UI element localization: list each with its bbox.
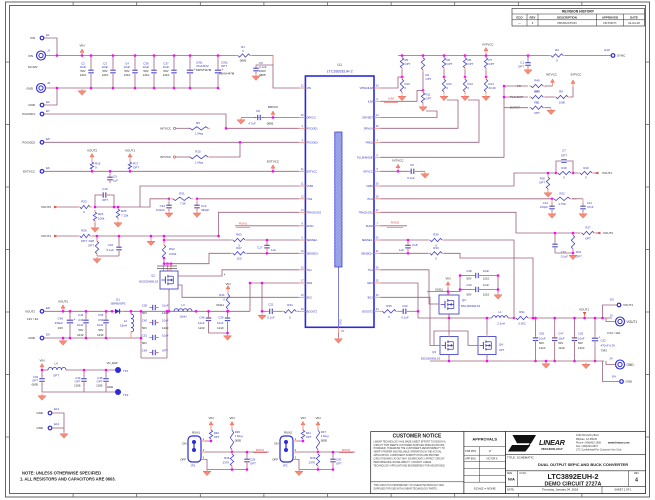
- svg-text:18uH: 18uH: [120, 324, 127, 328]
- svg-text:SENSE1+: SENSE1+: [361, 251, 373, 255]
- terminal E1: [30, 33, 50, 40]
- svg-text:10uF: 10uF: [97, 323, 104, 327]
- svg-text:50V: 50V: [142, 326, 147, 330]
- svg-text:1uF: 1uF: [399, 248, 404, 252]
- wire R34 to BOOST2: [297, 310, 300, 312]
- connector J4: [609, 357, 634, 370]
- svg-text:PLLIN/MODE: PLLIN/MODE: [357, 155, 373, 159]
- wire C34 down: [83, 384, 85, 392]
- svg-text:10uF: 10uF: [483, 283, 490, 287]
- resistor R39: [309, 452, 320, 468]
- capacitor C53 C52 pair: [97, 310, 109, 339]
- capacitor C13: [194, 199, 209, 212]
- wire BG1 to gates: [381, 297, 441, 345]
- svg-text:VOUT2: VOUT2: [41, 205, 51, 209]
- ground C6: [417, 171, 429, 178]
- svg-text:VOUT1: VOUT1: [125, 149, 135, 153]
- svg-text:C20: C20: [466, 283, 472, 287]
- resistor R27: [580, 226, 596, 241]
- svg-text:1210: 1210: [124, 73, 131, 77]
- svg-text:10uF: 10uF: [539, 336, 546, 340]
- node SW-Q2: [448, 317, 451, 320]
- svg-text:GND: GND: [627, 363, 635, 367]
- svg-text:0.1uF: 0.1uF: [267, 316, 275, 320]
- svg-text:50V: 50V: [466, 293, 471, 297]
- terminal E6: [23, 166, 50, 174]
- resistor R26: [78, 229, 92, 243]
- svg-text:VOUT2: VOUT2: [58, 300, 68, 304]
- capacitor C22: [398, 304, 409, 320]
- resistor R24: [93, 210, 105, 223]
- svg-text:50V: 50V: [142, 341, 147, 345]
- svg-text:+: +: [74, 317, 76, 321]
- wire R63 to RS2: [164, 240, 231, 244]
- svg-text:1210: 1210: [77, 333, 84, 337]
- svg-text:R44: R44: [219, 293, 225, 297]
- svg-text:50V: 50V: [98, 328, 103, 332]
- net label RUN2: [339, 448, 353, 453]
- net flag VOUT1 feedback: [41, 234, 78, 238]
- svg-text:0.004: 0.004: [169, 252, 177, 256]
- svg-text:1210: 1210: [162, 326, 169, 330]
- svg-text:BSC026N06LS3: BSC026N06LS3: [139, 279, 158, 283]
- wire GND rail: [46, 87, 219, 89]
- svg-text:OPT: OPT: [426, 97, 432, 101]
- ground C11: [579, 212, 587, 218]
- svg-text:E12: E12: [54, 422, 60, 426]
- ground R10: [398, 95, 406, 101]
- svg-text:3.3V / 10A: 3.3V / 10A: [607, 331, 620, 335]
- svg-text:237K: 237K: [223, 461, 230, 465]
- svg-text:OPT: OPT: [518, 65, 524, 69]
- wire SW1 vertical: [381, 283, 419, 318]
- svg-text:Q3: Q3: [432, 350, 436, 354]
- svg-text:C43: C43: [78, 318, 84, 322]
- svg-text:ON: ON: [274, 442, 278, 446]
- resistor R25: [116, 206, 128, 220]
- wire VPRG to R5: [381, 77, 403, 88]
- svg-text:R25: R25: [121, 209, 127, 213]
- capacitor C10 feedback: [94, 187, 116, 208]
- wire Q3-Q4 gate tie: [434, 331, 478, 346]
- wire output gnd rail: [430, 360, 604, 362]
- svg-text:C49: C49: [466, 269, 472, 273]
- wire SW2 vertical to rail: [249, 283, 251, 311]
- svg-text:1210: 1210: [162, 311, 169, 315]
- svg-text:63HVH47M: 63HVH47M: [219, 72, 235, 76]
- terminal E3: [610, 298, 633, 308]
- svg-text:VOUT2: VOUT2: [25, 310, 35, 314]
- svg-text:INTVCC: INTVCC: [363, 169, 373, 173]
- svg-text:C18: C18: [412, 243, 418, 247]
- ground C14: [548, 212, 556, 218]
- wire E2 to GND rail: [44, 88, 57, 105]
- svg-text:470uF 6.3V: 470uF 6.3V: [601, 344, 616, 348]
- svg-text:E4: E4: [612, 375, 616, 379]
- power flag VIN R36: [229, 416, 234, 428]
- node PGOOD2-R15: [239, 141, 242, 144]
- wire R47 to RS2 bottom: [171, 253, 231, 263]
- svg-text:OPT: OPT: [447, 62, 453, 66]
- svg-text:INTVCC: INTVCC: [160, 127, 171, 131]
- ground C15 R31: [569, 254, 577, 260]
- node R41 bottom: [302, 440, 305, 443]
- resistor R17: [128, 160, 139, 173]
- svg-text:BSC100N06LS3: BSC100N06LS3: [461, 304, 481, 308]
- svg-text:12V / 3A: 12V / 3A: [27, 317, 38, 321]
- node boost-sw: [417, 310, 420, 313]
- resistor R2: [549, 48, 565, 63]
- svg-text:18uH: 18uH: [179, 315, 186, 319]
- ground R24: [91, 226, 99, 232]
- svg-text:OPT: OPT: [561, 154, 567, 158]
- svg-text:TP1: TP1: [123, 369, 129, 373]
- resistor R20: [539, 172, 550, 191]
- wire Q2 drain to caps: [448, 291, 460, 293]
- wire JP1 pin2 RUN1: [205, 451, 269, 453]
- svg-text:C45: C45: [58, 317, 64, 321]
- resistor R15 pull-up: [188, 150, 210, 165]
- net flag VOUT1 rail: [579, 308, 589, 320]
- resistor R9 pull-up: [188, 121, 210, 136]
- capacitor C12: [156, 199, 172, 212]
- svg-text:DUAL OUTPUT SEPIC AND BUCK CON: DUAL OUTPUT SEPIC AND BUCK CONVERTER: [538, 462, 628, 467]
- svg-text:1210: 1210: [97, 333, 104, 337]
- wire E1 to VIN rail: [44, 38, 57, 56]
- svg-text:PGOOD1: PGOOD1: [22, 112, 35, 116]
- svg-text:L4: L4: [54, 362, 58, 366]
- node C21 gnd: [261, 310, 264, 313]
- svg-text:10uF: 10uF: [162, 304, 169, 308]
- svg-text:R33: R33: [433, 246, 439, 250]
- wire C35 down: [105, 384, 107, 392]
- inductor L1: [492, 310, 508, 325]
- svg-text:0.002: 0.002: [518, 321, 526, 325]
- wire TRACKSS1: [381, 212, 581, 233]
- terminal E12: [36, 422, 59, 430]
- svg-text:PGOOD2: PGOOD2: [22, 141, 35, 145]
- svg-text:SENSE2-: SENSE2-: [307, 238, 318, 242]
- svg-text:SENSE2+: SENSE2+: [307, 251, 319, 255]
- jumper JP1: [180, 436, 205, 468]
- svg-text:Milpitas, CA 95035: Milpitas, CA 95035: [576, 438, 597, 441]
- svg-text:1210: 1210: [578, 346, 585, 350]
- svg-text:C52: C52: [98, 318, 104, 322]
- wire VIN rail: [46, 55, 237, 57]
- svg-text:APPROVALS: APPROVALS: [472, 436, 497, 441]
- power flag INTVCC PLS: [570, 73, 581, 98]
- capacitor C14: [540, 199, 555, 212]
- svg-text:VOUT1: VOUT1: [627, 320, 638, 324]
- svg-text:SBR8U60P5: SBR8U60P5: [111, 302, 126, 306]
- svg-text:DRVSET: DRVSET: [362, 116, 373, 120]
- wire DRVSET elbow: [381, 111, 438, 118]
- resistor R33: [428, 246, 444, 261]
- resistor RS2 sense: [162, 235, 176, 260]
- node Q4 gnd: [486, 360, 489, 363]
- svg-text:237K: 237K: [309, 461, 316, 465]
- svg-text:C54: C54: [142, 349, 148, 353]
- svg-text:THIS CIRCUIT IS PROPRIETARY TO: THIS CIRCUIT IS PROPRIETARY TO LINEAR TE…: [374, 484, 445, 487]
- wire JP2 pin3: [297, 460, 299, 470]
- title block with Linear Technology logo: [506, 432, 646, 494]
- svg-text:RUN2: RUN2: [342, 448, 350, 452]
- svg-text:E2: E2: [46, 100, 50, 104]
- net label ILIM: [381, 90, 424, 102]
- svg-text:R51: R51: [534, 100, 540, 104]
- wire JP1 pin3: [205, 460, 207, 470]
- power flag INTVCC R9: [160, 127, 190, 131]
- svg-text:E5: E5: [46, 137, 50, 141]
- svg-text:ITH2: ITH2: [307, 197, 313, 201]
- ground E11 E12: [60, 432, 68, 438]
- svg-text:10uF: 10uF: [217, 321, 224, 325]
- capacitor C50: [533, 317, 546, 363]
- svg-text:IC NO.: IC NO.: [520, 473, 527, 475]
- svg-text:LTC3892EUH-2: LTC3892EUH-2: [548, 472, 599, 481]
- svg-text:R8: R8: [559, 90, 563, 94]
- svg-text:1uF: 1uF: [113, 179, 118, 183]
- svg-text:1uF: 1uF: [271, 248, 276, 252]
- svg-text:VOUT2: VOUT2: [87, 149, 97, 153]
- resistor R44: [216, 282, 230, 313]
- svg-text:01-04-18: 01-04-18: [628, 21, 640, 25]
- terminal E7: [22, 109, 50, 116]
- svg-text:REV: REV: [634, 473, 639, 475]
- svg-text:RUN1: RUN1: [192, 431, 200, 435]
- node E3 rail: [601, 317, 604, 320]
- capacitor C2: [80, 54, 94, 89]
- svg-text:RUN1: RUN1: [307, 224, 315, 228]
- svg-text:TITLE: SCHEMATIC: TITLE: SCHEMATIC: [507, 456, 535, 460]
- capacitor C33: [32, 369, 45, 387]
- ground R25: [114, 221, 122, 227]
- svg-text:R50: R50: [534, 90, 540, 94]
- svg-text:OPT: OPT: [88, 244, 94, 248]
- svg-text:VIN: VIN: [79, 44, 84, 48]
- wire VFB2: [95, 186, 299, 207]
- net label FC: [503, 84, 528, 88]
- svg-text:VERIFY PROPER AND RELIABLE OPE: VERIFY PROPER AND RELIABLE OPERATION IN …: [374, 451, 443, 454]
- svg-text:ILIM: ILIM: [368, 99, 373, 103]
- wire Q3 source down: [448, 355, 450, 362]
- svg-text:Fax: (408)434-0507: Fax: (408)434-0507: [576, 445, 599, 448]
- svg-text:GND: GND: [36, 411, 43, 415]
- svg-text:VIN: VIN: [39, 359, 44, 363]
- wire R22 right: [572, 198, 576, 200]
- ground C5: [252, 74, 260, 80]
- capacitor C32 bulk: [592, 317, 616, 363]
- svg-text:R49: R49: [534, 79, 540, 83]
- capacitor C37: [163, 54, 177, 89]
- wire ITH1: [381, 198, 553, 200]
- svg-text:PERFORMANCE OR RELIABILITY. C: PERFORMANCE OR RELIABILITY. CONTACT LINE…: [374, 461, 432, 464]
- svg-text:C8: C8: [256, 109, 260, 113]
- capacitor C9: [107, 170, 118, 183]
- terminal E8: [25, 306, 50, 321]
- svg-text:4.7uF: 4.7uF: [248, 122, 256, 126]
- node R37 RUN2: [317, 451, 320, 454]
- svg-text:1210: 1210: [539, 346, 546, 350]
- capacitor C16: [97, 235, 122, 256]
- svg-text:1210: 1210: [198, 326, 205, 330]
- node Q1 pin4: [224, 274, 226, 277]
- net label RUN1: [253, 448, 267, 453]
- svg-text:OPT: OPT: [81, 239, 87, 243]
- net label RUN1 pin: [235, 221, 299, 227]
- svg-text:OPT: OPT: [133, 166, 139, 170]
- wire R33 to RS1 right: [444, 253, 533, 318]
- net label RUN2 pin: [381, 220, 408, 227]
- power flag VIN Q2: [445, 277, 450, 289]
- testpoint TP2: [107, 385, 129, 397]
- svg-text:FREQ: FREQ: [366, 140, 373, 144]
- svg-text:TG1: TG1: [368, 268, 374, 272]
- connector J1: [28, 49, 51, 70]
- resistor R28: [88, 235, 99, 256]
- resistor R23: [78, 200, 92, 214]
- ground R20 arrow: [544, 191, 552, 197]
- svg-text:1210: 1210: [558, 346, 565, 350]
- wire INTVCC pin row: [381, 170, 409, 172]
- svg-text:DATE:: DATE:: [507, 488, 515, 492]
- power flag VIN R41: [300, 416, 305, 428]
- svg-text:C26: C26: [578, 331, 584, 335]
- ground R13: [461, 95, 469, 101]
- ground JP2: [295, 470, 303, 476]
- wire JP2 ground rail: [299, 468, 334, 471]
- wire C21 to R34: [276, 310, 282, 312]
- wire DRVUV elbow: [381, 100, 459, 128]
- svg-text:SW1: SW1: [367, 281, 373, 285]
- svg-text:TRACK/SS2: TRACK/SS2: [307, 210, 322, 214]
- ground U1 pin33: [334, 333, 342, 343]
- node Q4 drain: [486, 317, 489, 320]
- node R36 RUN1: [231, 451, 234, 454]
- capacitor C7 feedback: [555, 149, 575, 175]
- svg-text:1 Meg: 1 Meg: [235, 434, 243, 438]
- svg-text:16V: 16V: [58, 326, 63, 330]
- svg-text:APPLICATION. COMPONENT SUBSTI: APPLICATION. COMPONENT SUBSTITUTION AND …: [374, 454, 440, 457]
- svg-text:10uF: 10uF: [162, 334, 169, 338]
- svg-text:PGOOD1: PGOOD1: [307, 126, 319, 130]
- resistor R47: [231, 246, 247, 261]
- power flag VOUT2 R16: [87, 149, 97, 161]
- svg-text:47nF: 47nF: [587, 205, 594, 209]
- svg-text:10uF: 10uF: [483, 269, 490, 273]
- svg-text:GND: GND: [339, 319, 342, 325]
- wire VIN to Q2 drain: [447, 288, 449, 295]
- svg-text:0.1uF: 0.1uF: [401, 316, 409, 320]
- capacitor C47: [552, 317, 565, 363]
- svg-text:LINEAR: LINEAR: [539, 438, 566, 447]
- resistor R22: [551, 191, 572, 206]
- svg-text:L1: L1: [498, 310, 502, 314]
- node R5 mid: [401, 76, 404, 79]
- svg-text:1630 McCarthy Blvd.: 1630 McCarthy Blvd.: [576, 434, 600, 437]
- svg-text:RUN2: RUN2: [284, 431, 292, 435]
- capacitor C35: [96, 369, 109, 388]
- svg-text:—: —: [518, 21, 521, 25]
- wire cap gnd rail: [42, 384, 118, 392]
- svg-text:10uF: 10uF: [558, 336, 565, 340]
- terminal E10 SYNC: [604, 48, 626, 58]
- svg-text:OPT: OPT: [539, 181, 545, 185]
- capacitor C15: [552, 232, 568, 259]
- svg-text:0805: 0805: [321, 439, 328, 443]
- svg-text:JP2: JP2: [283, 464, 288, 468]
- ground C21: [258, 314, 266, 320]
- resistor R34: [282, 303, 298, 320]
- svg-text:OPT: OPT: [576, 254, 582, 258]
- node VIN-E1 junction: [56, 54, 59, 57]
- svg-text:R28: R28: [89, 239, 95, 243]
- svg-text:1210: 1210: [483, 277, 490, 281]
- svg-text:REVISION HISTORY: REVISION HISTORY: [562, 10, 595, 14]
- wire ITH2: [197, 198, 299, 200]
- svg-text:R26: R26: [81, 229, 87, 233]
- wire Q2 source to SW rail: [448, 314, 450, 318]
- svg-text:R35: R35: [386, 304, 392, 308]
- svg-text:Q1: Q1: [151, 273, 155, 277]
- svg-text:DRVUV: DRVUV: [364, 126, 373, 130]
- svg-text:C42: C42: [142, 319, 148, 323]
- capacitor CIN2: [215, 54, 235, 89]
- svg-text:EXTVCC: EXTVCC: [23, 170, 36, 174]
- svg-text:C6: C6: [410, 163, 414, 167]
- terminal E4: [612, 375, 633, 384]
- svg-text:OPT: OPT: [499, 348, 505, 352]
- svg-text:GND: GND: [626, 380, 634, 384]
- resistor R18: [556, 166, 573, 180]
- svg-text:HOWEVER, IT REMAINS THE CUSTOM: HOWEVER, IT REMAINS THE CUSTOMER'S RESPO…: [374, 447, 446, 450]
- resistor R19: [573, 166, 594, 180]
- resistor R16: [90, 160, 100, 173]
- svg-text:E10: E10: [604, 48, 610, 52]
- wire C22 to SW: [409, 310, 418, 312]
- resistor R4: [421, 54, 431, 90]
- ground C13: [193, 211, 201, 217]
- op-amp U1 LTC3892EUH-2 controller IC: [299, 63, 381, 333]
- power flag EXTVCC pin: [267, 160, 280, 173]
- svg-text:DRVCC: DRVCC: [307, 116, 316, 120]
- svg-text:330pF: 330pF: [201, 208, 210, 212]
- svg-text:RS2: RS2: [169, 247, 175, 251]
- svg-text:L3: L3: [181, 303, 185, 307]
- resistor R5: [400, 54, 410, 70]
- svg-text:APP ENG: APP ENG: [465, 457, 476, 460]
- svg-text:0.1uF: 0.1uF: [561, 254, 569, 258]
- wire VOUT2 rail: [44, 310, 250, 312]
- svg-text:CIRCUIT BOARD LAYOUT MAY SIGNI: CIRCUIT BOARD LAYOUT MAY SIGNIFICANTLY A…: [374, 458, 446, 461]
- svg-text:10uF: 10uF: [198, 321, 205, 325]
- svg-text:PCB MTN: PCB MTN: [465, 450, 476, 453]
- net label 61911: [427, 288, 449, 293]
- testpoint TP1: [107, 361, 129, 373]
- svg-text:VOUT1: VOUT1: [602, 171, 612, 175]
- svg-text:1206: 1206: [96, 383, 103, 387]
- node R40 bottom: [210, 440, 213, 443]
- svg-text:R24: R24: [98, 212, 104, 216]
- svg-text:R47: R47: [236, 246, 242, 250]
- capacitor C26: [572, 317, 585, 363]
- svg-text:R23: R23: [81, 200, 87, 204]
- node Q1 drain rail: [168, 310, 171, 313]
- capacitor C21: [266, 303, 275, 320]
- svg-text:OPT: OPT: [214, 435, 220, 439]
- svg-text:100pF: 100pF: [540, 205, 548, 209]
- capacitor C46: [198, 310, 211, 333]
